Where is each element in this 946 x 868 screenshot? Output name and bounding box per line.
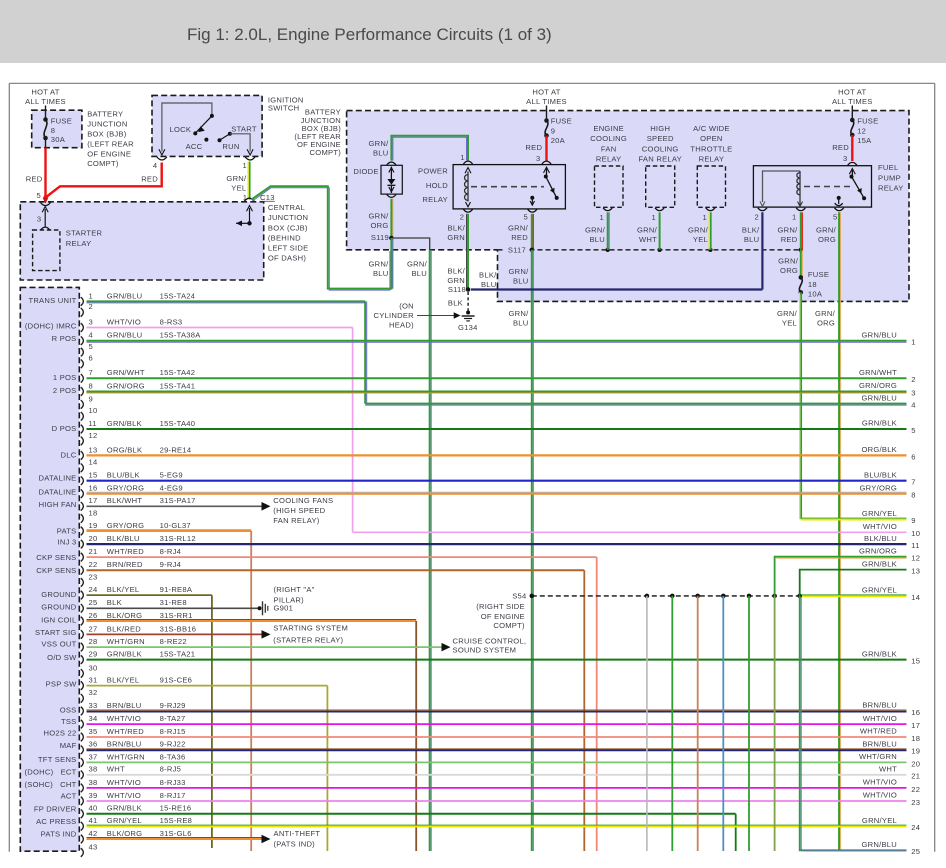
svg-text:10A: 10A bbox=[808, 290, 823, 299]
svg-text:COOLING: COOLING bbox=[590, 134, 627, 143]
svg-text:BLU: BLU bbox=[481, 280, 497, 289]
svg-text:43: 43 bbox=[89, 842, 98, 851]
fuel pump relay pin 1 bbox=[796, 208, 805, 211]
fuel pump relay pin 2 bbox=[758, 208, 767, 211]
svg-text:7: 7 bbox=[911, 478, 915, 487]
svg-text:35: 35 bbox=[89, 727, 98, 736]
svg-text:FAN: FAN bbox=[601, 144, 617, 153]
title bar bbox=[0, 0, 946, 63]
svg-text:START SIG: START SIG bbox=[35, 628, 77, 637]
svg-text:CHT: CHT bbox=[60, 780, 76, 789]
pin 25 bracket bbox=[81, 604, 84, 613]
svg-text:6: 6 bbox=[89, 354, 93, 363]
wire fuse 12 feed bbox=[851, 106, 853, 121]
svg-text:JUNCTION: JUNCTION bbox=[87, 119, 127, 128]
svg-text:15S-TA40: 15S-TA40 bbox=[160, 419, 196, 428]
wire GRN/YEL fuse 18 down to row 9 bbox=[799, 292, 801, 519]
svg-text:INJ 3: INJ 3 bbox=[58, 537, 77, 546]
svg-text:18: 18 bbox=[808, 280, 817, 289]
wire row 28 WHT/GRN bbox=[87, 646, 443, 648]
svg-text:OF DASH): OF DASH) bbox=[268, 254, 307, 263]
svg-text:2: 2 bbox=[911, 375, 915, 384]
svg-text:39: 39 bbox=[89, 791, 98, 800]
svg-text:GRN/BLK: GRN/BLK bbox=[107, 419, 142, 428]
high speed cooling fan relay box bbox=[646, 166, 675, 207]
svg-text:FAN RELAY: FAN RELAY bbox=[638, 155, 681, 164]
pin 2 bracket bbox=[81, 308, 84, 317]
ground G901 bbox=[258, 606, 262, 610]
wire row 3 WHT/VIO bbox=[87, 327, 353, 329]
fuel pump relay internal wire pin2 bbox=[763, 171, 801, 202]
svg-text:THROTTLE: THROTTLE bbox=[690, 144, 732, 153]
svg-text:GRN/: GRN/ bbox=[816, 226, 837, 235]
wire row 19 GRY/ORG bbox=[87, 529, 252, 531]
svg-text:GRN/YEL: GRN/YEL bbox=[862, 816, 897, 825]
svg-text:9-RJ29: 9-RJ29 bbox=[160, 701, 186, 710]
pin 4 bracket bbox=[81, 336, 84, 345]
svg-text:WHT/VIO: WHT/VIO bbox=[863, 714, 897, 723]
svg-text:21: 21 bbox=[911, 772, 920, 781]
svg-text:PUMP: PUMP bbox=[878, 173, 901, 182]
wire GRN/BLU diode to relay pin 1 bbox=[391, 136, 468, 161]
svg-text:4: 4 bbox=[153, 161, 157, 170]
svg-text:PSP SW: PSP SW bbox=[46, 679, 77, 688]
svg-text:ALL TIMES: ALL TIMES bbox=[832, 97, 873, 106]
wire row 29 GRN/BLK bbox=[87, 659, 907, 661]
wire GRN/ORG S117 to fuse 18 bbox=[800, 250, 802, 278]
wire S54 riser to row 12 GRN/ORG bbox=[775, 557, 907, 596]
svg-text:21: 21 bbox=[89, 547, 98, 556]
svg-text:(DOHC): (DOHC) bbox=[25, 767, 54, 776]
svg-text:1: 1 bbox=[792, 212, 796, 221]
diagram frame bbox=[9, 82, 934, 84]
pin 9 bracket bbox=[81, 400, 84, 409]
wire row 13 ORG/BLK bbox=[87, 454, 907, 456]
wire GRN/BLU S119 branch down bbox=[429, 250, 431, 851]
svg-text:1: 1 bbox=[703, 213, 707, 222]
svg-text:BRN/RED: BRN/RED bbox=[107, 560, 143, 569]
svg-text:WHT/VIO: WHT/VIO bbox=[863, 778, 897, 787]
svg-text:15S-TA24: 15S-TA24 bbox=[160, 291, 196, 300]
svg-text:GRN/YEL: GRN/YEL bbox=[862, 509, 897, 518]
wire BLK S118 to ground bbox=[467, 292, 469, 311]
power hold relay pin 2 bbox=[463, 209, 472, 212]
svg-text:ENGINE: ENGINE bbox=[593, 124, 624, 133]
svg-text:RELAY: RELAY bbox=[596, 155, 622, 164]
svg-text:WHT: WHT bbox=[639, 235, 657, 244]
svg-text:COMPT): COMPT) bbox=[493, 621, 525, 630]
svg-text:BLU: BLU bbox=[373, 149, 389, 158]
engine cooling fan relay pin 1 bbox=[603, 208, 612, 211]
wire GRN/RED relay pin5 to S117 bbox=[531, 214, 533, 250]
wire GRN/BLU S117 down bbox=[531, 250, 533, 851]
svg-text:GRN: GRN bbox=[447, 233, 465, 242]
svg-text:20: 20 bbox=[911, 759, 920, 768]
svg-text:31S-GL6: 31S-GL6 bbox=[160, 829, 192, 838]
svg-text:S54: S54 bbox=[512, 591, 526, 600]
svg-text:2: 2 bbox=[460, 212, 464, 221]
svg-text:26: 26 bbox=[89, 611, 98, 620]
svg-text:16: 16 bbox=[89, 484, 98, 493]
svg-text:GRN/: GRN/ bbox=[778, 257, 799, 266]
wire RED fuse 9 to power hold relay bbox=[545, 136, 547, 161]
svg-text:1: 1 bbox=[652, 213, 656, 222]
svg-text:WHT: WHT bbox=[879, 765, 897, 774]
svg-text:CYLINDER: CYLINDER bbox=[373, 311, 414, 320]
svg-text:OF ENGINE: OF ENGINE bbox=[87, 149, 131, 158]
svg-text:10: 10 bbox=[89, 406, 98, 415]
svg-text:WHT/GRN: WHT/GRN bbox=[107, 637, 145, 646]
svg-text:YEL: YEL bbox=[231, 183, 246, 192]
svg-text:GRN/BLU: GRN/BLU bbox=[861, 330, 897, 339]
ground G134 bbox=[466, 311, 470, 315]
wire fuse 9 feed bbox=[546, 106, 548, 121]
svg-text:WHT/VIO: WHT/VIO bbox=[863, 522, 897, 531]
svg-text:(RIGHT "A": (RIGHT "A" bbox=[274, 585, 315, 594]
wire GRN/BLU fan relay to S117 bbox=[607, 212, 609, 250]
svg-text:29-RE14: 29-RE14 bbox=[160, 445, 192, 454]
svg-text:BLK/YEL: BLK/YEL bbox=[107, 676, 140, 685]
wire row 40 GRN/BLK bbox=[87, 813, 736, 815]
svg-text:BLK/ORG: BLK/ORG bbox=[107, 829, 143, 838]
ignition switch ACC contact bbox=[204, 138, 208, 142]
svg-text:STARTING SYSTEM: STARTING SYSTEM bbox=[273, 623, 348, 632]
svg-text:BLU: BLU bbox=[513, 318, 529, 327]
svg-text:1: 1 bbox=[460, 153, 464, 162]
svg-text:12: 12 bbox=[89, 431, 98, 440]
svg-text:TRANS UNIT: TRANS UNIT bbox=[28, 296, 76, 305]
wire S54 drop 5 (green) bbox=[748, 596, 750, 851]
svg-text:31S-RL12: 31S-RL12 bbox=[160, 534, 196, 543]
fuel pump relay pin 5 bbox=[835, 208, 844, 211]
svg-text:30A: 30A bbox=[51, 135, 66, 144]
ignition pin 4 bbox=[159, 149, 165, 155]
pin 41 bracket bbox=[81, 822, 84, 831]
wire row 4 GRN/BLU bbox=[87, 340, 907, 342]
wire row 9 GRN/YEL to edge bbox=[801, 517, 907, 519]
svg-text:15S-TA42: 15S-TA42 bbox=[160, 368, 196, 377]
svg-text:WHT/GRN: WHT/GRN bbox=[859, 752, 897, 761]
svg-text:GRN/BLU: GRN/BLU bbox=[861, 393, 897, 402]
wire S54 drop 1 (gray) bbox=[646, 596, 648, 851]
svg-text:HO2S 22: HO2S 22 bbox=[44, 728, 77, 737]
svg-text:GRN/: GRN/ bbox=[585, 226, 606, 235]
fuse F18 10A bbox=[799, 275, 804, 280]
wire GRN/ORG fuel pump relay pin5 down bbox=[838, 212, 840, 851]
svg-text:8: 8 bbox=[51, 126, 55, 135]
svg-text:15: 15 bbox=[911, 657, 920, 666]
svg-text:COOLING: COOLING bbox=[642, 144, 679, 153]
svg-text:WHT/VIO: WHT/VIO bbox=[107, 791, 141, 800]
svg-text:GRN/YEL: GRN/YEL bbox=[862, 586, 897, 595]
ignition pin 1 bbox=[247, 149, 253, 155]
svg-text:O/D SW: O/D SW bbox=[47, 653, 77, 662]
svg-text:GROUND: GROUND bbox=[41, 602, 77, 611]
central junction box (CJB) bbox=[20, 202, 263, 280]
svg-text:BLK: BLK bbox=[107, 598, 122, 607]
svg-text:8-RJ4: 8-RJ4 bbox=[160, 547, 182, 556]
svg-text:31S-BB16: 31S-BB16 bbox=[160, 624, 197, 633]
pin 3 bracket bbox=[81, 323, 84, 332]
svg-text:FUSE: FUSE bbox=[51, 117, 72, 126]
svg-text:CENTRAL: CENTRAL bbox=[268, 203, 305, 212]
pin 33 bracket bbox=[81, 707, 84, 716]
svg-text:FAN RELAY): FAN RELAY) bbox=[273, 516, 319, 525]
wire row 33 BRN/BLU bbox=[87, 709, 907, 711]
svg-text:PILLAR): PILLAR) bbox=[274, 595, 305, 604]
svg-text:COMPT): COMPT) bbox=[310, 148, 342, 157]
svg-text:(STARTER RELAY): (STARTER RELAY) bbox=[273, 636, 343, 645]
svg-text:SPEED: SPEED bbox=[647, 134, 674, 143]
svg-text:GRN/BLK: GRN/BLK bbox=[862, 559, 897, 568]
svg-text:BATTERY: BATTERY bbox=[87, 110, 123, 119]
a/c wot relay box bbox=[697, 166, 725, 207]
wire row 38 WHT/VIO bbox=[87, 787, 907, 789]
svg-text:3: 3 bbox=[89, 317, 93, 326]
svg-text:RED: RED bbox=[525, 143, 542, 152]
svg-text:GRN/BLU: GRN/BLU bbox=[107, 291, 143, 300]
svg-text:1 POS: 1 POS bbox=[53, 373, 77, 382]
ignition switch wire to pin 1 bbox=[230, 134, 250, 152]
fuel pump relay coil bbox=[799, 171, 801, 206]
svg-text:BOX (BJB): BOX (BJB) bbox=[87, 129, 127, 138]
fuse F9 20A bbox=[544, 118, 549, 123]
pin 15 bracket bbox=[81, 476, 84, 485]
svg-text:FUSE: FUSE bbox=[551, 117, 572, 126]
svg-text:11: 11 bbox=[89, 419, 97, 428]
svg-text:23: 23 bbox=[911, 798, 920, 807]
pin 35 bracket bbox=[81, 733, 84, 742]
fuel pump relay box bbox=[753, 166, 871, 207]
battery junction box (fuse 8 box) bbox=[32, 110, 82, 148]
svg-text:8-RJ33: 8-RJ33 bbox=[160, 778, 186, 787]
svg-text:GRN/: GRN/ bbox=[509, 267, 530, 276]
svg-text:SOUND SYSTEM: SOUND SYSTEM bbox=[453, 645, 517, 654]
svg-text:ORG: ORG bbox=[370, 221, 388, 230]
svg-text:14: 14 bbox=[911, 593, 920, 602]
svg-text:BLU: BLU bbox=[411, 269, 427, 278]
wire row 14 GRN/YEL from S54 bbox=[802, 594, 907, 596]
wire row 8 GRN/ORG bbox=[87, 391, 907, 393]
svg-text:BLK: BLK bbox=[448, 299, 463, 308]
svg-text:S117: S117 bbox=[508, 245, 526, 254]
svg-text:28: 28 bbox=[89, 637, 98, 646]
pin 28 bracket bbox=[81, 643, 84, 652]
wire row 17 BLK/WHT bbox=[87, 505, 263, 507]
pin 20 bracket bbox=[81, 540, 84, 549]
svg-text:18: 18 bbox=[911, 734, 920, 743]
svg-text:DATALINE: DATALINE bbox=[38, 474, 76, 483]
svg-text:DLC: DLC bbox=[61, 451, 77, 460]
svg-text:8-TA36: 8-TA36 bbox=[160, 752, 186, 761]
a/c wot relay pin 1 bbox=[706, 208, 715, 211]
pin 30 bracket bbox=[81, 669, 84, 678]
svg-text:16: 16 bbox=[911, 708, 920, 717]
pin 6 bracket bbox=[81, 360, 84, 369]
pin 42 bracket bbox=[81, 835, 84, 844]
svg-text:4: 4 bbox=[911, 401, 915, 410]
svg-text:15S-TA21: 15S-TA21 bbox=[160, 650, 196, 659]
svg-text:WHT/RED: WHT/RED bbox=[107, 727, 144, 736]
svg-text:(RIGHT SIDE: (RIGHT SIDE bbox=[476, 602, 525, 611]
svg-text:5: 5 bbox=[89, 342, 93, 351]
svg-text:BLK/: BLK/ bbox=[448, 223, 466, 232]
fuel pump relay pin 3 connector bbox=[848, 162, 857, 165]
CJB internal arrow at C13 bbox=[247, 206, 253, 212]
svg-text:11: 11 bbox=[911, 541, 919, 550]
fuel pump relay switch bbox=[849, 169, 855, 175]
ignition switch LOCK blade bbox=[210, 114, 214, 118]
power hold relay coil bbox=[467, 172, 469, 202]
svg-text:VSS OUT: VSS OUT bbox=[41, 640, 76, 649]
wire row 16 GRY/ORG bbox=[87, 491, 907, 493]
svg-text:WHT/RED: WHT/RED bbox=[860, 727, 897, 736]
pin 21 bracket bbox=[81, 553, 84, 562]
svg-text:(LEFT REAR: (LEFT REAR bbox=[87, 140, 134, 149]
pin 31 bracket bbox=[81, 681, 84, 690]
svg-text:5: 5 bbox=[37, 191, 41, 200]
svg-text:GRN/: GRN/ bbox=[637, 226, 658, 235]
wire BLK/BLU fuel pump relay pin2 down bbox=[761, 212, 763, 289]
svg-text:32: 32 bbox=[89, 688, 98, 697]
svg-text:IGN COIL: IGN COIL bbox=[41, 616, 76, 625]
wire S54 drop 2 (green) bbox=[671, 596, 673, 851]
wire row 42 BLK/ORG bbox=[87, 837, 263, 839]
svg-text:14: 14 bbox=[89, 458, 98, 467]
svg-text:BLK/ORG: BLK/ORG bbox=[107, 611, 143, 620]
svg-text:8-RJ5: 8-RJ5 bbox=[160, 765, 182, 774]
svg-text:31: 31 bbox=[89, 676, 98, 685]
svg-text:PATS IND: PATS IND bbox=[41, 829, 77, 838]
svg-text:TSS: TSS bbox=[61, 717, 77, 726]
wire row 35 WHT/RED bbox=[87, 736, 907, 738]
pin 11 bracket bbox=[81, 425, 84, 434]
svg-text:RED: RED bbox=[832, 143, 849, 152]
svg-text:5-EG9: 5-EG9 bbox=[160, 471, 183, 480]
svg-text:15S-TA41: 15S-TA41 bbox=[160, 381, 196, 390]
svg-text:WHT/VIO: WHT/VIO bbox=[107, 714, 141, 723]
svg-text:GRN/BLU: GRN/BLU bbox=[861, 840, 897, 849]
pin 32 bracket bbox=[81, 694, 84, 703]
svg-text:31S-PA17: 31S-PA17 bbox=[160, 496, 196, 505]
svg-text:STARTER: STARTER bbox=[66, 229, 103, 238]
wire RED fuse8 to starter relay bbox=[44, 148, 46, 200]
svg-text:5: 5 bbox=[833, 212, 837, 221]
svg-text:GRY/ORG: GRY/ORG bbox=[107, 484, 144, 493]
pin 38 bracket bbox=[81, 784, 84, 793]
svg-text:GRN/: GRN/ bbox=[226, 174, 247, 183]
svg-text:(SOHC): (SOHC) bbox=[25, 780, 54, 789]
svg-text:GRN/YEL: GRN/YEL bbox=[107, 816, 142, 825]
svg-text:S118: S118 bbox=[448, 285, 466, 294]
wire row 36 BRN/BLU bbox=[87, 748, 907, 750]
svg-text:BLK/: BLK/ bbox=[479, 270, 497, 279]
svg-text:GRN/BLK: GRN/BLK bbox=[107, 650, 142, 659]
svg-text:(ON: (ON bbox=[399, 302, 414, 311]
pin 16 bracket bbox=[81, 489, 84, 498]
svg-text:1: 1 bbox=[600, 213, 604, 222]
svg-text:GRN/WHT: GRN/WHT bbox=[107, 368, 145, 377]
wire GRN/BLU C13 to diode/S119 bbox=[252, 186, 392, 288]
power hold relay pin 3 connector bbox=[542, 161, 551, 164]
svg-text:5: 5 bbox=[524, 212, 528, 221]
svg-text:15: 15 bbox=[89, 471, 98, 480]
pin 24 bracket bbox=[81, 591, 84, 600]
svg-text:ECT: ECT bbox=[61, 767, 77, 776]
svg-text:RUN: RUN bbox=[222, 142, 239, 151]
high speed fan relay pin 1 bbox=[655, 208, 664, 211]
wire RED fuse 12 to fuel pump relay bbox=[851, 135, 853, 161]
arrow to G134 bbox=[417, 315, 456, 317]
svg-text:9: 9 bbox=[89, 394, 93, 403]
svg-text:BRN/BLU: BRN/BLU bbox=[862, 701, 897, 710]
svg-text:GRY/ORG: GRY/ORG bbox=[107, 521, 144, 530]
svg-text:20: 20 bbox=[89, 534, 98, 543]
svg-text:5: 5 bbox=[911, 426, 915, 435]
svg-text:WHT/GRN: WHT/GRN bbox=[107, 752, 145, 761]
svg-text:G901: G901 bbox=[274, 604, 294, 613]
svg-text:WHT/VIO: WHT/VIO bbox=[107, 778, 141, 787]
svg-text:17: 17 bbox=[89, 496, 98, 505]
svg-text:8: 8 bbox=[89, 381, 93, 390]
wire row 1 GRN/BLU bbox=[87, 300, 366, 302]
pin 38 bracket bbox=[81, 771, 84, 780]
svg-text:ORG/BLK: ORG/BLK bbox=[107, 445, 143, 454]
svg-text:GRN/: GRN/ bbox=[815, 309, 836, 318]
wire row 21 WHT/RED bbox=[87, 556, 597, 558]
wire row 22 BRN/RED bbox=[87, 569, 585, 571]
svg-text:BLU/BLK: BLU/BLK bbox=[864, 470, 897, 479]
wire row 41 GRN/YEL bbox=[87, 824, 907, 826]
svg-text:2: 2 bbox=[89, 302, 93, 311]
svg-text:DIODE: DIODE bbox=[353, 167, 378, 176]
svg-text:WHT/RED: WHT/RED bbox=[107, 547, 144, 556]
wire fuse 8 to red bbox=[45, 138, 47, 148]
svg-text:9-RJ22: 9-RJ22 bbox=[160, 740, 186, 749]
pin 1 bracket bbox=[81, 297, 84, 306]
wire S119 branch to right and down bbox=[391, 238, 429, 250]
svg-text:COOLING FANS: COOLING FANS bbox=[273, 496, 333, 505]
svg-text:GRN/: GRN/ bbox=[509, 309, 530, 318]
svg-text:MAF: MAF bbox=[60, 741, 77, 750]
wire row 39 WHT/VIO bbox=[87, 800, 907, 802]
svg-text:HIGH: HIGH bbox=[650, 124, 670, 133]
pin 19 bracket bbox=[81, 527, 84, 536]
wire row 37 WHT/GRN bbox=[87, 761, 907, 763]
trans unit connector box bbox=[20, 287, 79, 851]
svg-text:15S-TA38A: 15S-TA38A bbox=[160, 331, 202, 340]
svg-text:(HIGH SPEED: (HIGH SPEED bbox=[273, 506, 325, 515]
power hold relay dashed link bbox=[471, 186, 544, 188]
svg-text:9: 9 bbox=[551, 126, 555, 135]
svg-text:GRN/: GRN/ bbox=[778, 226, 799, 235]
svg-text:GRN/BLK: GRN/BLK bbox=[107, 804, 142, 813]
svg-text:15S-RE8: 15S-RE8 bbox=[160, 816, 193, 825]
svg-text:38: 38 bbox=[89, 765, 98, 774]
svg-text:12: 12 bbox=[911, 554, 920, 563]
svg-text:33: 33 bbox=[89, 701, 98, 710]
svg-text:LOCK: LOCK bbox=[170, 125, 192, 134]
svg-text:BLK/BLU: BLK/BLU bbox=[107, 534, 140, 543]
svg-text:GRN/: GRN/ bbox=[777, 309, 798, 318]
pin 12 bracket bbox=[81, 437, 84, 446]
svg-text:6: 6 bbox=[911, 452, 915, 461]
wire row 25 BLK bbox=[87, 607, 258, 609]
svg-text:ORG: ORG bbox=[817, 319, 835, 328]
svg-text:GRN/ORG: GRN/ORG bbox=[107, 381, 145, 390]
svg-text:19: 19 bbox=[911, 747, 920, 756]
ignition switch START blade bbox=[218, 138, 222, 142]
